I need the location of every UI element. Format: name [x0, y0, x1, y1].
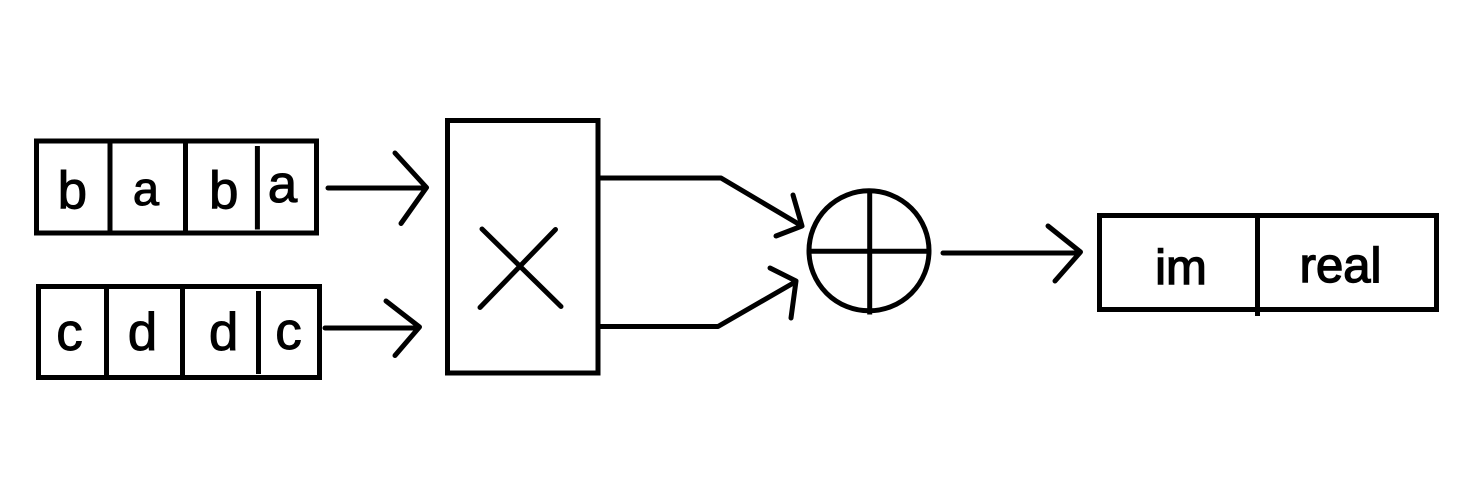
adder circle	[809, 191, 929, 311]
svg-text:a: a	[133, 162, 160, 215]
svg-text:b: b	[209, 162, 238, 221]
svg-text:im: im	[1155, 241, 1207, 295]
svg-text:a: a	[268, 155, 298, 214]
svg-text:c: c	[56, 303, 83, 362]
output register divider	[1255, 216, 1260, 317]
adder plus horizontal	[807, 249, 931, 254]
wire: adder to output register, shaft	[943, 251, 1076, 256]
adder plus vertical	[867, 190, 872, 315]
arrowhead into multiplier (bottom)	[386, 301, 420, 356]
multiplier X symbol stroke 1	[482, 229, 561, 307]
arrowhead into adder (top path)	[776, 195, 802, 236]
wire: register A to multiplier, shaft	[328, 186, 424, 191]
wire: multiplier bottom output to adder	[598, 282, 796, 327]
wire: multiplier top output to adder	[598, 178, 802, 226]
output register outline	[1100, 216, 1437, 310]
multiplier U1 box	[448, 121, 599, 374]
arrowhead into adder (bottom path)	[770, 268, 796, 318]
register B divider 3	[256, 291, 261, 374]
svg-text:c: c	[275, 302, 302, 361]
svg-text:b: b	[58, 162, 87, 221]
register B divider 1	[104, 287, 109, 378]
svg-text:real: real	[1300, 239, 1382, 293]
arrowhead into multiplier (top)	[395, 153, 427, 224]
svg-text:d: d	[209, 303, 238, 362]
register A divider 1	[108, 141, 113, 233]
arrowhead into output register	[1048, 226, 1081, 281]
svg-text:d: d	[128, 303, 157, 362]
register B outline	[39, 287, 320, 378]
register A divider 2	[183, 141, 188, 233]
register B divider 2	[180, 287, 185, 378]
register A divider 3	[255, 146, 260, 230]
register A outline	[37, 141, 317, 233]
wire: register B to multiplier, shaft	[325, 326, 416, 331]
multiplier X symbol stroke 2	[480, 230, 556, 308]
